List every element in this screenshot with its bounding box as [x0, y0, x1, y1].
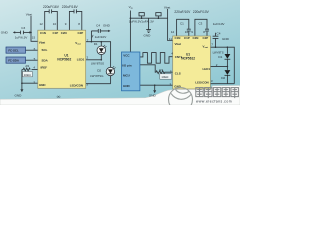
svg-text:LWY8TSG: LWY8TSG: [90, 74, 103, 78]
svg-text:C3: C3: [199, 21, 203, 25]
svg-text:220uF/10V: 220uF/10V: [193, 10, 210, 14]
svg-text:SCL: SCL: [42, 48, 48, 52]
svg-text:12: 12: [171, 30, 175, 34]
svg-text:Vbat: Vbat: [26, 12, 33, 16]
svg-text:10kΩ: 10kΩ: [161, 75, 169, 79]
svg-text:C2N: C2N: [61, 31, 67, 35]
svg-text:out: out: [77, 43, 81, 46]
svg-text:GND: GND: [15, 93, 23, 97]
svg-text:LED/CON: LED/CON: [70, 83, 83, 87]
svg-text:C4: C4: [96, 24, 100, 28]
svg-text:D2: D2: [97, 69, 101, 73]
svg-text:C3: C3: [21, 26, 25, 30]
svg-text:Vbat: Vbat: [175, 42, 181, 46]
svg-text:CLS: CLS: [175, 72, 181, 76]
svg-text:D1: D1: [94, 42, 98, 46]
svg-text:I/O pin: I/O pin: [122, 64, 132, 68]
svg-text:LWY8TS: LWY8TS: [213, 50, 224, 54]
svg-text:NCP5612: NCP5612: [181, 56, 195, 60]
svg-text:1uF/6.3V: 1uF/6.3V: [141, 20, 154, 24]
svg-text:10kΩ: 10kΩ: [24, 73, 32, 77]
svg-text:1uF/6.3V: 1uF/6.3V: [15, 35, 28, 39]
svg-text:LWY8TSG: LWY8TSG: [91, 62, 104, 66]
svg-text:C1P: C1P: [184, 36, 190, 40]
svg-text:(a): (a): [57, 94, 61, 98]
svg-text:SDA: SDA: [42, 58, 49, 62]
svg-text:LED1: LED1: [77, 58, 85, 62]
svg-text:GND: GND: [1, 31, 9, 35]
svg-text:220uF/16V: 220uF/16V: [43, 5, 60, 9]
svg-text:C4: C4: [217, 32, 221, 36]
svg-text:GND: GND: [144, 34, 152, 38]
svg-text:C1: C1: [180, 21, 184, 25]
svg-text:I²C-SCL: I²C-SCL: [8, 49, 19, 53]
svg-text:Vbat: Vbat: [39, 40, 45, 44]
svg-text:GND: GND: [149, 93, 157, 97]
svg-text:VCC: VCC: [123, 54, 130, 58]
svg-text:C2N: C2N: [193, 36, 199, 40]
svg-text:1uF/10V: 1uF/10V: [213, 22, 226, 26]
svg-text:C2P: C2P: [78, 31, 84, 35]
svg-text:IREF: IREF: [41, 65, 48, 69]
svg-text:12: 12: [40, 22, 44, 26]
svg-text:GND: GND: [103, 24, 111, 28]
svg-text:C1N: C1N: [40, 31, 46, 35]
svg-text:D2: D2: [221, 76, 225, 80]
svg-text:LED1: LED1: [203, 67, 211, 71]
svg-text:LED/CON: LED/CON: [195, 80, 208, 84]
svg-text:Vbat: Vbat: [164, 5, 171, 9]
svg-text:C2P: C2P: [203, 36, 209, 40]
svg-text:10: 10: [185, 30, 189, 34]
svg-text:C1N: C1N: [175, 36, 181, 40]
svg-text:GND: GND: [39, 83, 46, 87]
svg-text:MCU: MCU: [123, 73, 130, 77]
svg-text:10: 10: [53, 22, 57, 26]
svg-text:R1: R1: [26, 64, 30, 68]
svg-text:GND: GND: [123, 84, 131, 88]
svg-text:11: 11: [169, 37, 172, 41]
svg-text:NCP5602: NCP5602: [57, 57, 71, 61]
svg-text:220uF/16V: 220uF/16V: [62, 5, 79, 9]
svg-text:www.elecfans.com: www.elecfans.com: [196, 100, 232, 104]
svg-text:220uF/10V: 220uF/10V: [174, 10, 191, 14]
svg-text:out: out: [205, 46, 209, 49]
svg-text:GND: GND: [222, 37, 230, 41]
svg-text:D1: D1: [218, 55, 222, 59]
svg-text:C1P: C1P: [53, 31, 59, 35]
svg-text:15: 15: [32, 36, 36, 40]
svg-text:R1: R1: [159, 68, 163, 72]
svg-text:1uF/10V: 1uF/10V: [95, 35, 108, 39]
svg-text:I²C-SDA: I²C-SDA: [8, 59, 20, 63]
